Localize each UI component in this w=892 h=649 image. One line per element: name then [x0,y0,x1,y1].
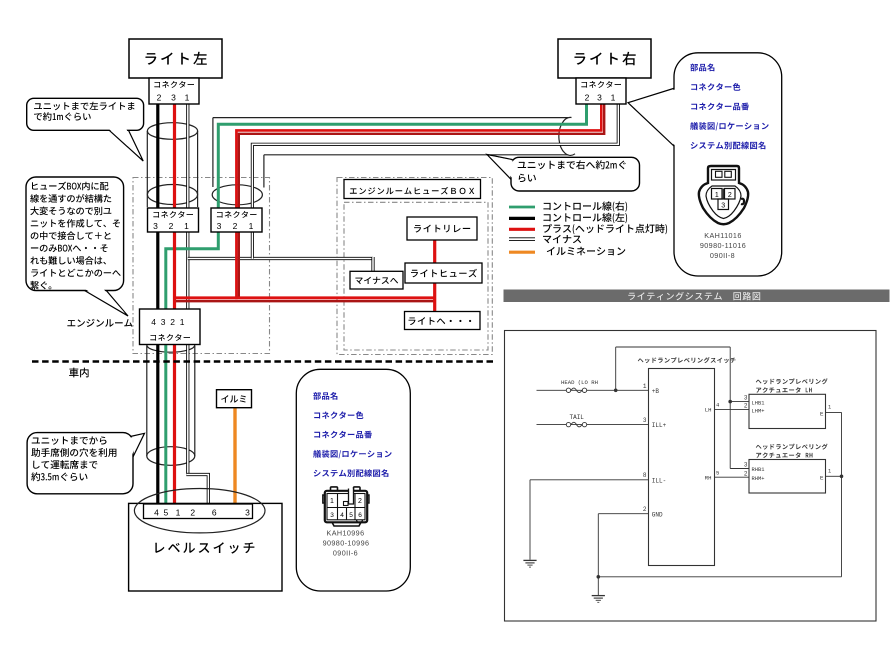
wire orange illumination [233,408,236,505]
actuator LH box [749,394,826,428]
bubble: fuse box long note [82,289,128,316]
label shanai (cabin) [69,368,89,378]
svg-text:3: 3 [217,221,222,231]
sheath rim arc below connector (top) [147,345,195,352]
connector box light-right [576,78,626,104]
sheath tube below 4-3-2-1 connector [146,346,148,456]
svg-text:2: 2 [233,221,238,231]
wire minus from left light pin1 down [186,104,189,475]
legend: plus (red) [509,228,535,231]
leveling switch box [649,369,715,566]
svg-text:090II-6: 090II-6 [333,549,358,558]
svg-text:2: 2 [157,93,162,103]
legend: control line left (black) [509,217,535,220]
RH pin2 wire from switch [715,476,750,478]
svg-text:HEAD (LO RH: HEAD (LO RH [561,379,598,386]
connector box 1 (from left light) [148,208,199,232]
svg-text:1: 1 [330,498,334,505]
LH pin3 wire [730,401,749,403]
svg-text:+B: +B [652,388,660,395]
connector box 4-3-2-1 [140,309,201,345]
info bubble 2 body [296,369,410,591]
legend: illumination (orange) [509,251,535,254]
svg-text:6: 6 [212,508,217,518]
bubble: about 1m to left light [108,129,143,161]
gray title bar [504,290,890,303]
sheath rim ellipse upper-left [147,123,197,140]
svg-text:1: 1 [715,192,719,199]
circuit outer frame [505,331,877,622]
svg-text:1: 1 [611,93,616,103]
connector icon KAH10996 [323,487,369,526]
illumination box [217,390,252,408]
svg-text:3: 3 [597,93,602,103]
wire red plus horizontal from fuse (bright) [175,296,435,299]
svg-text:3: 3 [330,512,334,519]
svg-text:LHB1: LHB1 [752,400,765,406]
svg-text:1: 1 [828,405,831,411]
light relay box [407,217,477,240]
sheath tube right-light cable outlines [213,117,568,119]
svg-text:2: 2 [643,506,647,513]
+B branch up and over [615,347,617,390]
fuse box inner dash-dot box [344,202,488,350]
bubble: about 2m to right [487,155,515,184]
svg-text:1: 1 [249,221,254,231]
svg-text:5: 5 [716,469,719,476]
light fuse box [405,263,482,283]
wire red plus right light second strand (dark) [239,104,604,297]
svg-text:1: 1 [184,221,189,231]
svg-text:E: E [820,411,824,418]
legend: control line right (green) [509,206,535,209]
sheath rim ellipse above connector1 [147,185,197,205]
wire minus jog to level switch pin [186,475,208,506]
wire minus drop into minus-he box [371,257,374,272]
svg-text:2: 2 [744,403,748,410]
svg-text:8: 8 [643,472,647,479]
svg-text:5: 5 [349,512,353,519]
svg-text:4 3 2 1: 4 3 2 1 [151,317,185,327]
svg-text:KAH11016: KAH11016 [704,231,741,240]
bottom return wire [598,576,841,578]
svg-text:RHM+: RHM+ [752,476,765,482]
wire red fuse to lights vertical [433,282,436,313]
svg-text:KAH10996: KAH10996 [327,529,365,538]
svg-text:4: 4 [340,512,344,519]
leveling switch title [638,357,736,363]
actuator RH box [749,460,826,494]
svg-text:2: 2 [190,508,195,518]
level switch pin strip [144,504,253,519]
svg-text:2: 2 [169,221,174,231]
svg-text:LH: LH [705,407,712,414]
label engine room [67,319,132,327]
minus-he box [350,271,403,289]
svg-text:E: E [820,474,824,481]
svg-text:5: 5 [164,508,169,518]
svg-text:RHB1: RHB1 [752,467,765,473]
svg-text:1: 1 [185,93,190,103]
engine room boundary dash-dot box [133,178,270,354]
svg-text:ILL+: ILL+ [652,422,667,429]
ILL- wire and ground [530,479,649,481]
LH E pin wire [826,412,842,414]
LH pin2 wire from switch [715,409,750,411]
sheath rim arc near right light [559,117,575,155]
bubble: about 3.5m to driver seat [128,433,145,459]
dashed line cabin boundary (shanai) [32,360,496,363]
wire red plus horizontal second strand (dark) [176,300,435,302]
svg-text:2: 2 [728,192,732,199]
svg-text:3: 3 [153,221,158,231]
svg-text:6: 6 [358,512,362,519]
fuse box outer dashed box [337,178,492,355]
svg-text:90980-11016: 90980-11016 [700,241,746,250]
wire black control left from left light pin2 [156,104,159,505]
wire green control right from right light pin2 [166,104,587,505]
svg-text:ILL-: ILL- [652,477,666,484]
svg-text:2: 2 [744,470,748,477]
svg-text:90980-10996: 90980-10996 [323,539,370,548]
wire red plus left light pin3 down to level switch [173,104,176,505]
sheath rim ellipse above level switch [147,447,195,466]
svg-text:3: 3 [643,417,647,424]
svg-text:1: 1 [828,469,831,475]
svg-text:3: 3 [744,462,748,469]
svg-text:3: 3 [171,93,176,103]
connector box 2 (from right light) [211,208,262,232]
svg-text:4: 4 [716,402,720,409]
svg-text:3: 3 [744,395,748,402]
RH E pin wire [826,475,842,477]
svg-text:2: 2 [358,498,362,505]
svg-text:1: 1 [176,508,181,518]
svg-text:3: 3 [245,508,250,518]
TAIL feed wire [537,424,649,426]
wire minus from right light pin1 [252,104,618,259]
light right box [558,39,651,78]
sheath tube left light [146,131,148,207]
connector box light-left [149,78,199,104]
ellipse around level switch connector [134,489,265,533]
svg-text:LHM+: LHM+ [752,409,765,415]
connector icon KAH11016 [699,166,748,224]
wire minus horizontal to fuse box minus [188,257,373,260]
light-he box [405,312,481,330]
RH pin3 wire [730,468,749,470]
svg-text:1: 1 [643,383,647,390]
wire red relay to fuse [433,239,436,264]
legend: minus (double line) [509,237,535,241]
svg-text:3: 3 [721,203,725,210]
svg-text:2: 2 [585,93,590,103]
svg-text:RH: RH [705,474,712,481]
svg-text:GND: GND [652,511,663,518]
wire red plus right light pin3 (bright) [236,104,601,299]
info bubble 1 body [674,53,782,276]
sheath rim ellipse above connector2 [212,185,262,205]
fuse box label [344,180,481,199]
svg-text:4: 4 [154,508,159,518]
svg-text:TAIL: TAIL [570,414,585,421]
svg-text:090II-8: 090II-8 [710,251,735,260]
light left box [129,39,222,78]
+B feed wire with HEAD fuse [537,389,649,391]
info bubble 1 tail [628,88,675,147]
level switch box [129,503,282,591]
GND wire and ground [598,513,648,515]
